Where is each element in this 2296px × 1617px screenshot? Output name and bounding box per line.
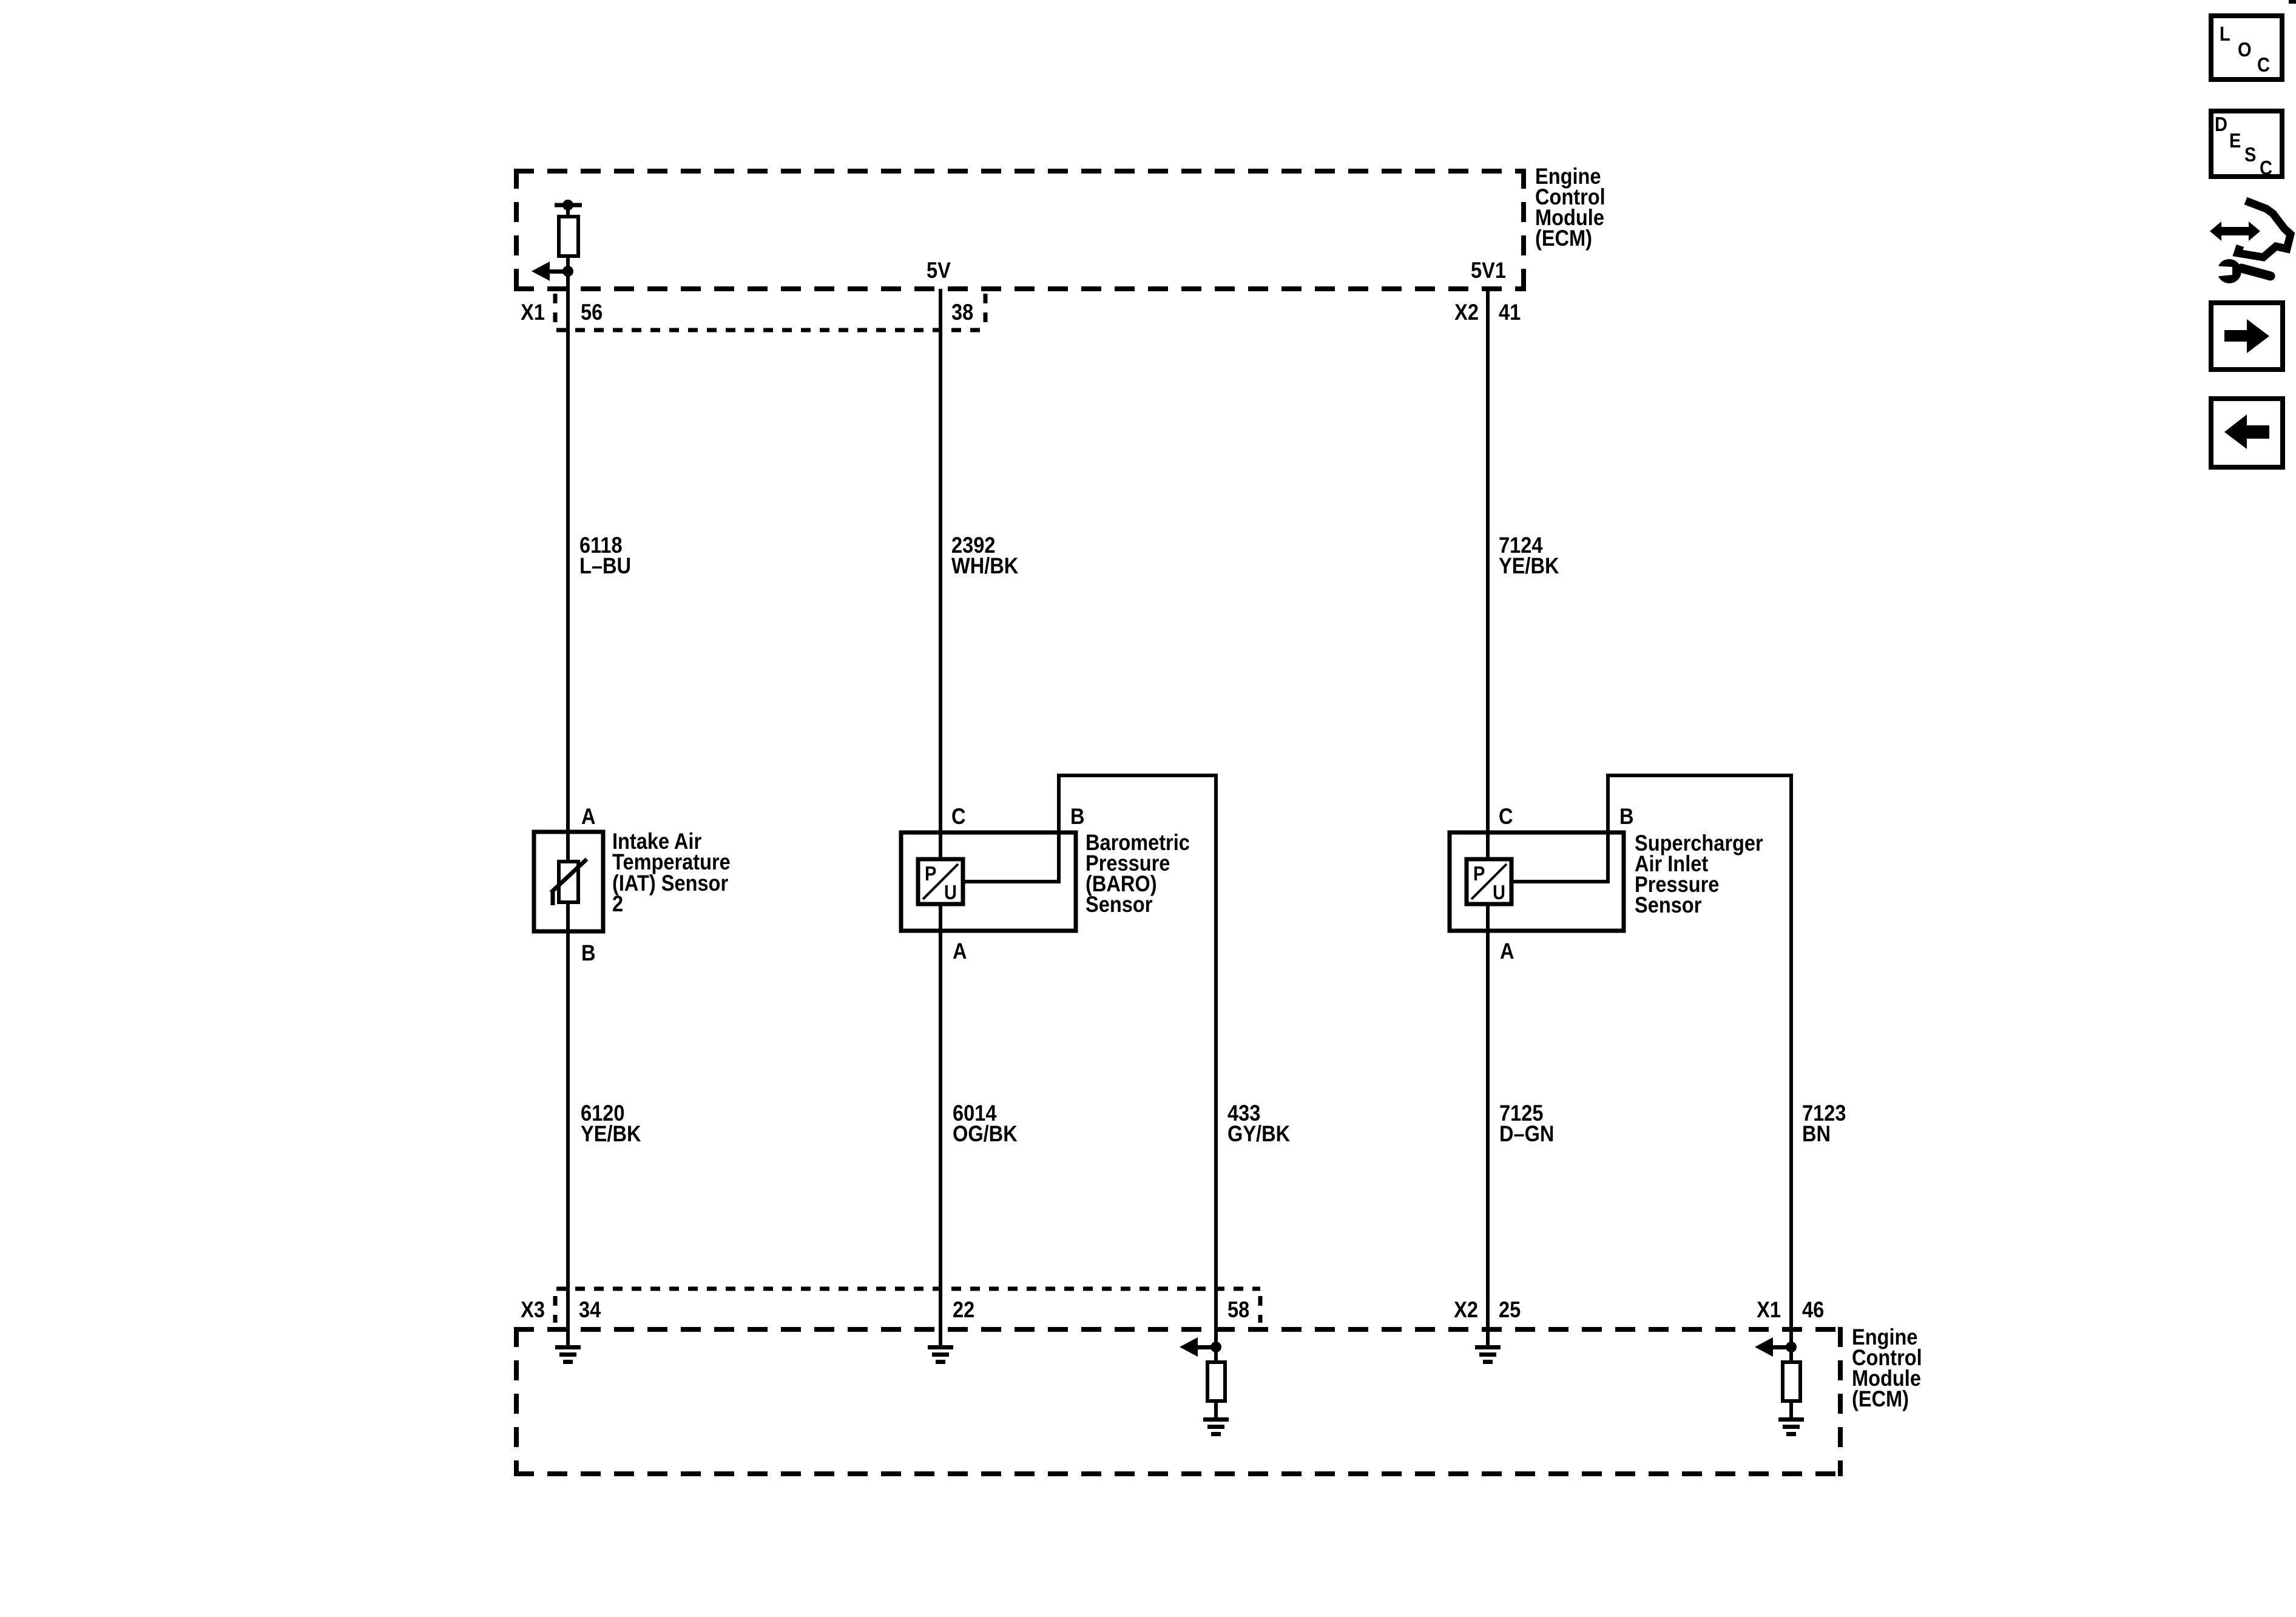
wire: BARO output to pin B — [963, 880, 1061, 883]
svg-text:C: C — [951, 804, 966, 829]
svg-text:A: A — [1500, 939, 1514, 964]
icon: LOC box — [2211, 16, 2282, 79]
svg-text:(ECM): (ECM) — [1852, 1386, 1909, 1411]
ground (pin 22) — [928, 1345, 953, 1364]
wire: T-bar to resistor — [566, 205, 570, 217]
svg-text:X2: X2 — [1454, 300, 1479, 325]
svg-text:56: 56 — [581, 300, 603, 325]
junction dot (pin 46 net) — [1786, 1342, 1797, 1352]
junction dot above pin 56 — [562, 266, 573, 277]
svg-text:YE/BK: YE/BK — [581, 1121, 641, 1146]
svg-text:P: P — [1473, 862, 1485, 885]
wire: junction to resistor (pin 58) — [1214, 1347, 1218, 1364]
svg-text:A: A — [581, 804, 596, 829]
svg-text:X3: X3 — [521, 1297, 545, 1322]
label: circuit 7123 BN — [1802, 1101, 1846, 1146]
ECM top dashed box — [514, 169, 1526, 291]
svg-text:34: 34 — [579, 1297, 601, 1322]
wire: circuit 433 top run — [1057, 774, 1218, 777]
svg-text:P: P — [925, 862, 936, 885]
IAT sensor box — [534, 832, 603, 931]
svg-text:O: O — [2238, 38, 2252, 61]
label: circuit 6118 L-BU — [579, 533, 631, 578]
resistor: ECM internal (pin 46) — [1783, 1362, 1800, 1401]
connector X3 row (bottom): fine dashed box — [555, 1289, 1260, 1323]
svg-text:BN: BN — [1802, 1121, 1831, 1146]
ECM top label: Engine Control Module (ECM) — [1535, 164, 1606, 251]
svg-text:L: L — [2220, 22, 2230, 45]
svg-text:38: 38 — [951, 300, 973, 325]
junction dot on T-bar — [562, 200, 573, 211]
svg-text:E: E — [2229, 129, 2241, 152]
wire: resistor to junction — [566, 256, 570, 274]
ground (pin 46 resistor) — [1778, 1417, 1804, 1436]
junction dot (pin 58 net) — [1210, 1342, 1221, 1352]
resistor: ECM internal (pin 58) — [1207, 1362, 1225, 1401]
wire: circuit 7124 (5V1 ref) — [1486, 289, 1490, 1345]
ground (pin 58 resistor) — [1203, 1417, 1229, 1436]
wire: circuit 433 (BARO signal) — [1214, 774, 1218, 1348]
svg-text:(ECM): (ECM) — [1535, 226, 1592, 251]
svg-text:5V1: 5V1 — [1471, 258, 1506, 283]
svg-text:22: 22 — [953, 1297, 974, 1322]
ground (pin 25) — [1475, 1345, 1501, 1364]
svg-text:S: S — [2244, 143, 2256, 166]
wire: resistor to ground (pin 58) — [1214, 1401, 1218, 1419]
wire: circuit 7123 top run — [1606, 774, 1793, 777]
wire: resistor to ground (pin 46) — [1789, 1401, 1793, 1419]
ground (pin 34) — [555, 1345, 581, 1364]
svg-text:X1: X1 — [521, 300, 545, 325]
label: Intake Air Temperature (IAT) Sensor 2 — [612, 829, 731, 916]
svg-text:B: B — [1619, 804, 1634, 829]
svg-text:C: C — [1499, 804, 1513, 829]
svg-text:U: U — [1493, 881, 1505, 903]
ECM bottom label: Engine Control Module (ECM) — [1852, 1325, 1922, 1411]
label: circuit 7124 YE/BK — [1499, 533, 1559, 578]
svg-text:C: C — [2257, 53, 2270, 76]
svg-text:B: B — [581, 940, 596, 965]
connector X1 row (top): fine dashed box — [555, 294, 985, 330]
svg-text:OG/BK: OG/BK — [953, 1121, 1018, 1146]
page corner mark — [2289, 0, 2296, 4]
svg-text:C: C — [2260, 157, 2272, 179]
svg-text:5V: 5V — [927, 258, 951, 283]
arrow: to other circuits (pin 58) — [1180, 1337, 1216, 1357]
svg-text:B: B — [1070, 804, 1085, 829]
svg-text:WH/BK: WH/BK — [951, 553, 1018, 578]
label: circuit 433 GY/BK — [1227, 1101, 1290, 1146]
svg-text:A: A — [953, 939, 967, 964]
wire: SC output to pin B — [1511, 880, 1610, 883]
arrow: to other circuits (left) — [532, 262, 568, 281]
Supercharger sensor box — [1450, 832, 1624, 931]
svg-text:41: 41 — [1499, 300, 1521, 325]
svg-text:(IAT) Sensor: (IAT) Sensor — [612, 871, 729, 896]
wire: circuit 6118 (IAT signal) — [566, 271, 570, 1348]
label: Barometric Pressure (BARO) Sensor — [1086, 830, 1190, 917]
svg-text:YE/BK: YE/BK — [1499, 553, 1559, 578]
icon: back arrow box — [2211, 399, 2283, 467]
wire: circuit 2392 (5V ref) — [939, 289, 942, 1348]
label: circuit 2392 WH/BK — [951, 533, 1018, 578]
svg-text:58: 58 — [1227, 1297, 1249, 1322]
resistor: ECM internal pull-up — [559, 217, 578, 256]
svg-text:46: 46 — [1802, 1297, 1824, 1322]
thermistor element — [551, 859, 587, 905]
label: circuit 7125 D-GN — [1499, 1101, 1554, 1146]
label: circuit 6120 YE/BK — [581, 1101, 641, 1146]
svg-text:X2: X2 — [1454, 1297, 1478, 1322]
svg-text:D–GN: D–GN — [1499, 1121, 1554, 1146]
SC P/U transducer symbol — [1467, 859, 1511, 904]
label: circuit 6014 OG/BK — [953, 1101, 1018, 1146]
wire: circuit 7123 (SC signal) — [1789, 774, 1793, 1348]
svg-text:Sensor: Sensor — [1086, 892, 1153, 917]
node: internal 5V supply T-bar — [555, 203, 582, 208]
svg-text:25: 25 — [1499, 1297, 1521, 1322]
svg-text:Sensor: Sensor — [1635, 893, 1702, 917]
icon: service wrench symbol — [2210, 201, 2291, 283]
svg-text:L–BU: L–BU — [579, 553, 631, 578]
BARO P/U transducer symbol — [918, 859, 963, 904]
svg-text:X1: X1 — [1757, 1297, 1781, 1322]
label: Supercharger Air Inlet Pressure Sensor — [1635, 831, 1763, 917]
svg-text:GY/BK: GY/BK — [1227, 1121, 1290, 1146]
svg-text:U: U — [944, 881, 957, 903]
icon: forward arrow box — [2211, 303, 2283, 370]
svg-text:2: 2 — [612, 891, 623, 916]
wire: junction to resistor (pin 46) — [1789, 1347, 1793, 1364]
icon: DESC box — [2211, 111, 2282, 179]
ECM bottom dashed box — [514, 1327, 1843, 1476]
BARO sensor box — [901, 832, 1076, 931]
svg-text:D: D — [2215, 113, 2227, 135]
arrow: to other circuits (pin 46) — [1755, 1337, 1791, 1357]
